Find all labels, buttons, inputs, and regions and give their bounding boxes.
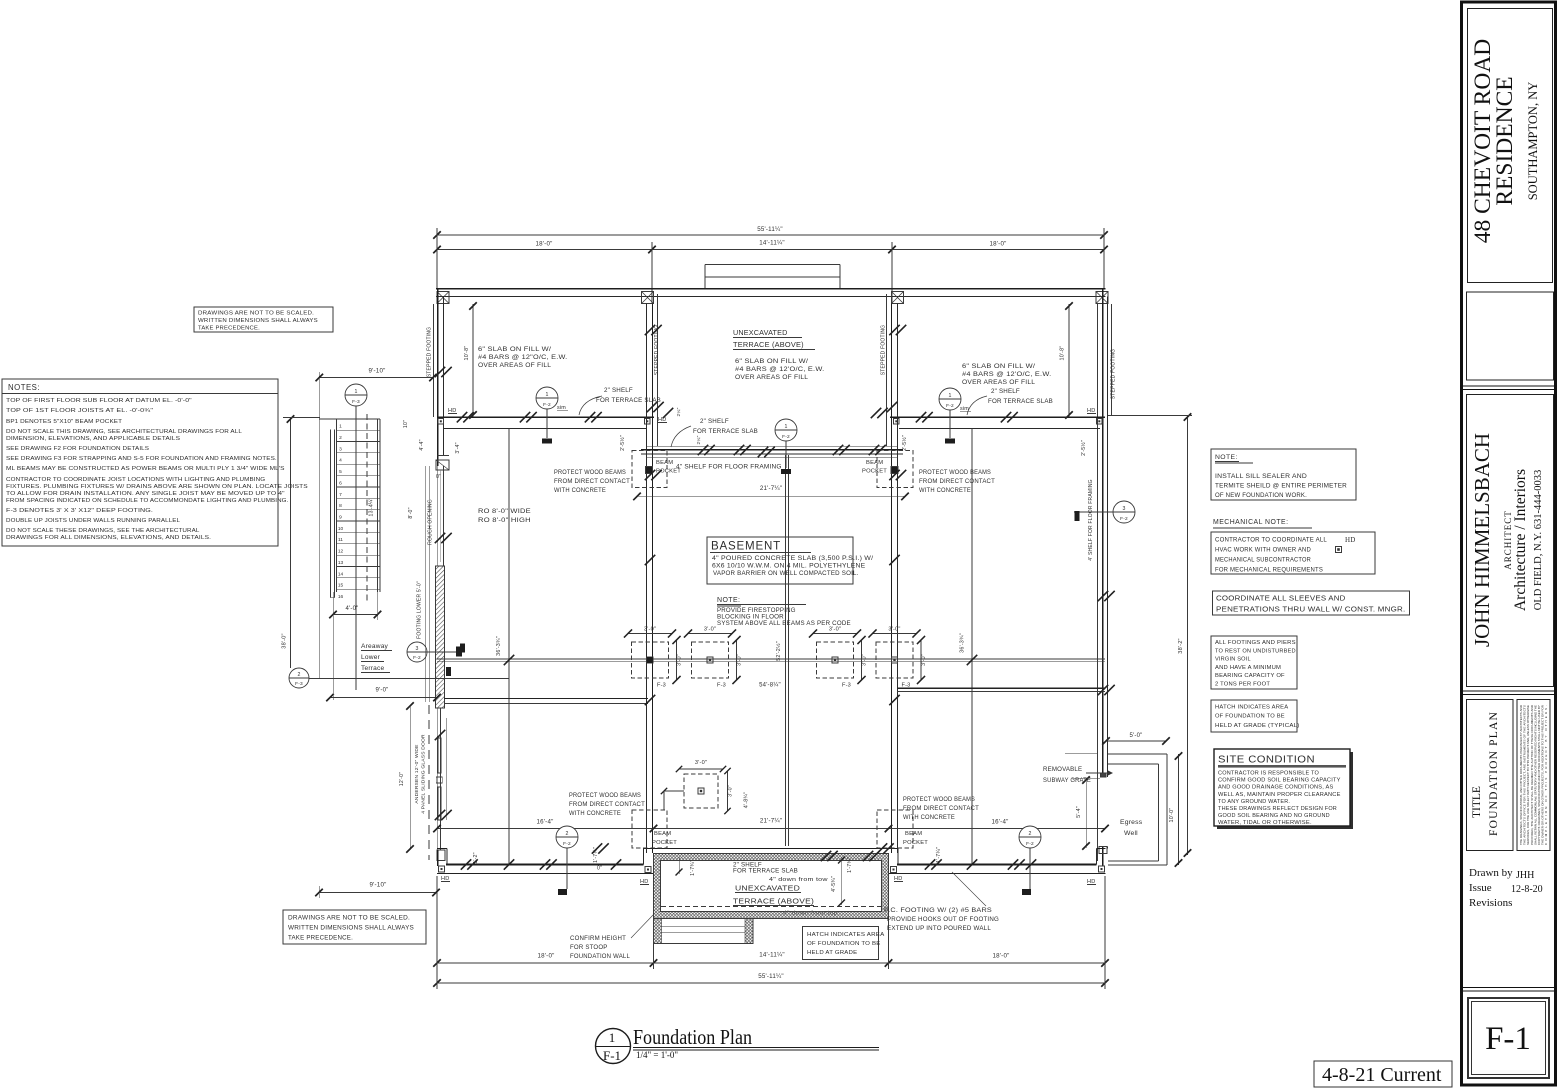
svg-text:2: 2 bbox=[339, 435, 342, 441]
corner post left-center bbox=[642, 292, 654, 304]
svg-text:1'-7¾": 1'-7¾" bbox=[690, 860, 696, 876]
svg-text:F-2: F-2 bbox=[563, 841, 571, 847]
svg-text:13: 13 bbox=[338, 560, 344, 566]
left wall rough opening jambs bbox=[437, 466, 439, 566]
svg-text:CONTRACTOR IS RESPONSIBLE TO: CONTRACTOR IS RESPONSIBLE TO bbox=[1218, 771, 1320, 777]
svg-text:HD: HD bbox=[1087, 879, 1095, 885]
svg-text:SYSTEM ABOVE ALL BEAMS AS PER: SYSTEM ABOVE ALL BEAMS AS PER CODE bbox=[717, 621, 851, 627]
svg-text:FROM DIRECT CONTACT: FROM DIRECT CONTACT bbox=[569, 801, 645, 808]
svg-text:FOR TERRACE SLAB: FOR TERRACE SLAB bbox=[693, 428, 758, 435]
beam pocket bottom-left dashed bbox=[632, 810, 667, 848]
drawings not to be scaled box top bbox=[194, 307, 333, 332]
beam pocket top-right dashed bbox=[877, 451, 913, 488]
dim 9'-10 above stair bbox=[319, 377, 433, 379]
drawn by issue revisions bbox=[1469, 867, 1543, 909]
svg-text:3'-0": 3'-0" bbox=[704, 627, 716, 633]
svg-text:AND GOOD DRAINAGE CONDITIONS,: AND GOOD DRAINAGE CONDITIONS, AS bbox=[1218, 785, 1334, 791]
svg-text:4 PANEL SLIDING GLASS DOOR: 4 PANEL SLIDING GLASS DOOR bbox=[421, 734, 427, 814]
svg-text:Revisions: Revisions bbox=[1469, 897, 1512, 909]
egress well inner bbox=[1108, 763, 1158, 765]
svg-text:F-2: F-2 bbox=[946, 403, 954, 409]
svg-text:JHH: JHH bbox=[1516, 870, 1534, 881]
svg-text:5'-0": 5'-0" bbox=[1130, 733, 1143, 739]
svg-text:WITH CONCRETE: WITH CONCRETE bbox=[569, 810, 621, 817]
svg-text:BP1 DENOTES 5"X10" BEAM POCKET: BP1 DENOTES 5"X10" BEAM POCKET bbox=[6, 419, 122, 425]
dim 3'-0 right of lower footing bbox=[727, 771, 729, 811]
svg-text:FOOTING LOWER 5'-0": FOOTING LOWER 5'-0" bbox=[417, 581, 423, 639]
svg-text:OVER AREAS OF FILL: OVER AREAS OF FILL bbox=[962, 379, 1036, 386]
svg-text:2¼": 2¼" bbox=[676, 407, 682, 416]
svg-text:FROM SPACING INDICATED ON SCHE: FROM SPACING INDICATED ON SCHEDULE TO AC… bbox=[6, 498, 289, 504]
svg-text:HD: HD bbox=[1345, 536, 1356, 544]
svg-text:FOR MECHANICAL REQUIREMENTS: FOR MECHANICAL REQUIREMENTS bbox=[1215, 567, 1323, 574]
dim 3'-0 above footing x=894.5 bbox=[873, 633, 917, 635]
svg-text:PROTECT WOOD BEAMS: PROTECT WOOD BEAMS bbox=[903, 796, 975, 803]
svg-text:COORDINATE ALL SLEEVES AND: COORDINATE ALL SLEEVES AND bbox=[1216, 594, 1346, 603]
section separator 2 bbox=[1462, 690, 1557, 692]
svg-text:2" SHELF: 2" SHELF bbox=[700, 418, 729, 425]
svg-text:UNEXCAVATED: UNEXCAVATED bbox=[735, 884, 800, 893]
svg-text:ALL FOOTINGS AND PIERS: ALL FOOTINGS AND PIERS bbox=[1215, 640, 1296, 646]
site condition box bbox=[1217, 752, 1353, 829]
svg-text:5'-4": 5'-4" bbox=[1076, 806, 1082, 818]
svg-text:TITLE: TITLE bbox=[1471, 786, 1483, 818]
svg-text:3'-0": 3'-0" bbox=[677, 654, 683, 666]
svg-text:0": 0" bbox=[436, 474, 441, 480]
svg-text:F-1: F-1 bbox=[603, 1048, 621, 1063]
svg-text:2: 2 bbox=[1028, 831, 1031, 837]
svg-text:F-3 DENOTES 3' X 3' X12" DEEP: F-3 DENOTES 3' X 3' X12" DEEP FOOTING. bbox=[6, 508, 153, 514]
right wing interior wall bbox=[890, 416, 1105, 418]
svg-text:F-2: F-2 bbox=[1120, 516, 1128, 522]
svg-text:BEAM: BEAM bbox=[905, 831, 922, 837]
dim 3'-0 above lower footing bbox=[679, 768, 723, 770]
title block outer border bbox=[1462, 2, 1556, 1085]
svg-text:6X6 10/10 W.W.M. ON 4 MIL. POL: 6X6 10/10 W.W.M. ON 4 MIL. POLYETHYLENE bbox=[712, 564, 865, 570]
svg-text:HELD AT GRADE (TYPICAL): HELD AT GRADE (TYPICAL) bbox=[1215, 723, 1300, 729]
center terrace right wall bbox=[891, 304, 893, 854]
svg-text:THESE DRAWINGS REFLECT DESIGN: THESE DRAWINGS REFLECT DESIGN FOR bbox=[1218, 806, 1337, 812]
svg-text:16'-4": 16'-4" bbox=[537, 819, 554, 826]
svg-text:4" SHELF FOR FLOOR FRAMING: 4" SHELF FOR FLOOR FRAMING bbox=[676, 464, 782, 471]
svg-text:CONTRACTOR TO COORDINATE ALL: CONTRACTOR TO COORDINATE ALL bbox=[1215, 537, 1327, 544]
svg-text:F-2: F-2 bbox=[413, 655, 421, 661]
svg-text:F-2: F-2 bbox=[543, 402, 551, 408]
svg-text:55'-11¼": 55'-11¼" bbox=[757, 226, 783, 233]
svg-text:F-3: F-3 bbox=[902, 683, 911, 689]
svg-text:#4 BARS @ 12'O/C, E.W.: #4 BARS @ 12'O/C, E.W. bbox=[735, 366, 824, 373]
svg-text:BEARING CAPACITY OF: BEARING CAPACITY OF bbox=[1215, 673, 1285, 679]
svg-text:GOOD SOIL BEARING AND NO GROUN: GOOD SOIL BEARING AND NO GROUND bbox=[1218, 813, 1330, 819]
svg-text:CONFIRM HEIGHT: CONFIRM HEIGHT bbox=[570, 935, 626, 942]
svg-text:3'-0": 3'-0" bbox=[737, 654, 743, 666]
svg-text:6: 6 bbox=[339, 480, 342, 486]
svg-text:TAKE PRECEDENCE.: TAKE PRECEDENCE. bbox=[198, 326, 260, 332]
svg-text:9: 9 bbox=[339, 515, 342, 521]
svg-text:3'-0": 3'-0" bbox=[862, 654, 868, 666]
svg-text:54'-8¼": 54'-8¼" bbox=[759, 683, 781, 689]
dim 3'-0 above footing x=835 bbox=[813, 633, 857, 635]
areaway lines bbox=[309, 678, 509, 680]
subway grate opening in right wall bbox=[1101, 773, 1107, 777]
svg-text:14: 14 bbox=[338, 571, 344, 577]
stair outer box bbox=[319, 418, 380, 420]
svg-text:ROUGH OPENING: ROUGH OPENING bbox=[428, 499, 434, 545]
svg-text:3'-0": 3'-0" bbox=[921, 654, 927, 666]
svg-text:3'-4": 3'-4" bbox=[455, 442, 461, 453]
svg-text:NOTE:: NOTE: bbox=[1215, 454, 1238, 461]
svg-text:4" down from top: 4" down from top bbox=[783, 911, 838, 917]
svg-text:STEPPED FOOTING: STEPPED FOOTING bbox=[427, 327, 433, 378]
dim 3'-0 right of footing x=650 bbox=[676, 640, 678, 680]
svg-text:TO REST ON UNDISTURBED: TO REST ON UNDISTURBED bbox=[1215, 648, 1296, 654]
svg-text:FROM DIRECT CONTACT: FROM DIRECT CONTACT bbox=[554, 478, 630, 485]
svg-text:OF NEW FOUNDATION WORK.: OF NEW FOUNDATION WORK. bbox=[1215, 492, 1307, 499]
svg-text:Foundation Plan: Foundation Plan bbox=[633, 1025, 752, 1049]
svg-text:F-3: F-3 bbox=[657, 683, 666, 689]
svg-text:11: 11 bbox=[338, 537, 343, 543]
stair leader line from circle bbox=[355, 406, 357, 690]
svg-text:CONTRACTOR TO COORDINATE JOIST: CONTRACTOR TO COORDINATE JOIST LOCATIONS… bbox=[6, 477, 266, 483]
right wing lower interior wall bbox=[897, 687, 1105, 689]
svg-text:4'-4": 4'-4" bbox=[419, 439, 425, 450]
center terrace inner shelf lines bbox=[657, 294, 659, 447]
svg-text:13'-4¼": 13'-4¼" bbox=[369, 498, 375, 517]
svg-text:REMOVABLE: REMOVABLE bbox=[1043, 766, 1082, 773]
svg-text:2'-5½": 2'-5½" bbox=[619, 435, 626, 451]
left wall sliding door frame bbox=[436, 708, 438, 850]
svg-text:DRAWINGS FOR ALL DIMENSIONS, E: DRAWINGS FOR ALL DIMENSIONS, ELEVATIONS,… bbox=[6, 535, 211, 541]
dim 3'-0 right of footing x=835 bbox=[861, 640, 863, 680]
svg-text:3: 3 bbox=[339, 446, 342, 452]
svg-text:1: 1 bbox=[354, 389, 357, 395]
svg-text:10'-0": 10'-0" bbox=[1169, 808, 1175, 823]
svg-text:WRITTEN DIMENSIONS SHALL ALWAY: WRITTEN DIMENSIONS SHALL ALWAYS bbox=[198, 318, 318, 324]
legal fine print box bbox=[1517, 700, 1550, 851]
svg-text:14'-11¼": 14'-11¼" bbox=[759, 240, 785, 247]
svg-text:HELD AT GRADE: HELD AT GRADE bbox=[807, 950, 857, 956]
svg-text:SEE DRAWING F3 FOR STRAPPING A: SEE DRAWING F3 FOR STRAPPING AND S-5 FOR… bbox=[6, 456, 277, 462]
svg-text:EXTEND UP INTO POURED WALL: EXTEND UP INTO POURED WALL bbox=[887, 925, 991, 932]
svg-text:AND HAVE A MINIMUM: AND HAVE A MINIMUM bbox=[1215, 665, 1281, 671]
svg-text:1: 1 bbox=[784, 424, 787, 430]
svg-text:F-3: F-3 bbox=[717, 683, 726, 689]
svg-text:9'-10": 9'-10" bbox=[369, 368, 386, 375]
right wing vertical dim 10'-8 bbox=[1068, 304, 1070, 417]
svg-text:6" SLAB ON FILL W/: 6" SLAB ON FILL W/ bbox=[478, 346, 551, 353]
dimension line 55'-11 1/4 top bbox=[437, 234, 1104, 236]
svg-text:TO ALLOW FOR DRAIN INSTALLATIO: TO ALLOW FOR DRAIN INSTALLATION. ANY SIN… bbox=[6, 491, 285, 497]
coordinate sleeves box bbox=[1213, 591, 1410, 615]
BASEMENT note box bbox=[707, 537, 853, 584]
current date box bbox=[1314, 1061, 1452, 1087]
dimension extension lines top bbox=[436, 228, 438, 289]
circle 1/F-2 center bbox=[775, 419, 797, 441]
dim line 16-4 / 21-7 / 16-4 above bottom wall bbox=[437, 828, 1105, 830]
stair treads bbox=[337, 429, 381, 431]
egress well dim 5'-0 bbox=[1106, 740, 1166, 742]
bottom exterior wall left run bbox=[437, 848, 447, 850]
svg-text:PENETRATIONS THRU WALL W/ CONS: PENETRATIONS THRU WALL W/ CONST. MNGR. bbox=[1216, 605, 1405, 614]
svg-text:HD: HD bbox=[1087, 408, 1095, 414]
circle 1/F-2 left wing bbox=[536, 387, 558, 409]
svg-text:HATCH INDICATES AREA: HATCH INDICATES AREA bbox=[807, 932, 884, 938]
svg-text:4'-8¾": 4'-8¾" bbox=[744, 792, 750, 808]
footing F-3 at x=835 bbox=[817, 642, 854, 678]
svg-text:Well: Well bbox=[1124, 830, 1138, 837]
svg-text:F-3: F-3 bbox=[295, 681, 303, 687]
wall tick marks bbox=[457, 412, 467, 422]
svg-text:RO 8'-0" WIDE: RO 8'-0" WIDE bbox=[478, 508, 531, 515]
svg-text:OLD FIELD, N.Y. 631-444-0033: OLD FIELD, N.Y. 631-444-0033 bbox=[1533, 470, 1544, 610]
svg-text:TOP OF FIRST FLOOR SUB FLOOR A: TOP OF FIRST FLOOR SUB FLOOR AT DATUM EL… bbox=[6, 398, 192, 404]
svg-text:1: 1 bbox=[545, 392, 548, 398]
bottom dim line 18-0 / 14-11 / 18-0 bbox=[437, 962, 1105, 964]
left wing lower interior wall bbox=[444, 698, 648, 700]
svg-text:15: 15 bbox=[338, 583, 344, 589]
svg-text:SITE CONDITION: SITE CONDITION bbox=[1218, 754, 1315, 766]
left wall bottom corner step bbox=[437, 850, 445, 861]
svg-text:WITH CONCRETE: WITH CONCRETE bbox=[903, 814, 955, 821]
svg-text:2'-5½": 2'-5½" bbox=[1080, 440, 1087, 456]
leader to lower footing bbox=[664, 790, 684, 792]
svg-text:NOTES:: NOTES: bbox=[8, 383, 40, 392]
corner post top-right bbox=[1096, 292, 1108, 304]
stoop interior dim lines bbox=[678, 857, 680, 874]
title box foundation plan bbox=[1467, 700, 1514, 851]
svg-text:1/4" = 1'-0": 1/4" = 1'-0" bbox=[636, 1050, 678, 1060]
mechanical note box bbox=[1211, 532, 1375, 574]
svg-text:36'-3¾": 36'-3¾" bbox=[960, 633, 966, 653]
svg-text:INSTALL SILL SEALER AND: INSTALL SILL SEALER AND bbox=[1215, 473, 1307, 480]
interior beam line center vertical bbox=[785, 455, 787, 846]
dim 9'-10 bottom left bbox=[319, 892, 436, 894]
architect box bbox=[1467, 395, 1554, 687]
svg-text:FROM DIRECT CONTACT: FROM DIRECT CONTACT bbox=[903, 805, 979, 812]
svg-text:F-3: F-3 bbox=[352, 399, 360, 405]
svg-text:4" POURED CONCRETE SLAB (3,500: 4" POURED CONCRETE SLAB (3,500 P.S.I.) W… bbox=[712, 556, 873, 562]
svg-text:STEPPED FOOTING: STEPPED FOOTING bbox=[881, 325, 887, 376]
bottom wall inner line bbox=[437, 873, 654, 875]
svg-text:ANDERSEN 12'-0" WIDE: ANDERSEN 12'-0" WIDE bbox=[414, 744, 420, 804]
dim 4'-0 under stair bbox=[333, 614, 378, 616]
drawings not to be scaled box bottom bbox=[283, 910, 426, 944]
svg-text:36'-3¾": 36'-3¾" bbox=[496, 636, 502, 656]
svg-text:18'-0": 18'-0" bbox=[538, 953, 555, 960]
svg-text:BASEMENT: BASEMENT bbox=[711, 541, 781, 553]
svg-text:TO ANY GROUND WATER.: TO ANY GROUND WATER. bbox=[1218, 799, 1290, 805]
svg-text:DIMENSION, ELEVATIONS, AND APP: DIMENSION, ELEVATIONS, AND APPLICABLE DE… bbox=[6, 436, 180, 442]
svg-text:VIRGIN SOIL: VIRGIN SOIL bbox=[1215, 657, 1251, 663]
svg-text:PROTECT WOOD BEAMS: PROTECT WOOD BEAMS bbox=[554, 469, 626, 476]
svg-text:38'-0": 38'-0" bbox=[282, 633, 288, 648]
svg-text:Drawn by: Drawn by bbox=[1469, 867, 1513, 879]
left wall corner step bbox=[438, 455, 449, 457]
svg-text:3'-0": 3'-0" bbox=[695, 760, 707, 766]
svg-text:WATER, TIDAL OR OTHERWISE.: WATER, TIDAL OR OTHERWISE. bbox=[1218, 820, 1312, 826]
section separator bbox=[1462, 385, 1557, 387]
circle 2/F-3 bbox=[289, 668, 309, 688]
section separator 3 bbox=[1462, 987, 1557, 989]
svg-text:WITH CONCRETE: WITH CONCRETE bbox=[554, 487, 606, 494]
svg-text:FOR TERRACE SLAB: FOR TERRACE SLAB bbox=[596, 397, 661, 404]
sheet number box F-1 bbox=[1468, 998, 1549, 1078]
corner post right-center bbox=[892, 292, 904, 304]
svg-text:Lower: Lower bbox=[361, 654, 381, 661]
svg-text:16: 16 bbox=[338, 594, 344, 600]
egress well outer bbox=[1108, 753, 1167, 755]
stair left rail bbox=[330, 430, 332, 598]
svg-text:4: 4 bbox=[339, 458, 342, 464]
stepped footing outline left bbox=[433, 304, 435, 417]
bottom wall line behind stoop bbox=[644, 848, 899, 850]
svg-text:2: 2 bbox=[565, 831, 568, 837]
svg-text:21'-7¼": 21'-7¼" bbox=[760, 485, 782, 492]
interior beam line right wing vertical bbox=[971, 428, 973, 864]
svg-text:16'-4": 16'-4" bbox=[992, 819, 1009, 826]
circle 1/F-3 bbox=[345, 384, 367, 406]
right exterior wall bbox=[1102, 289, 1104, 777]
door dim line 12'-0 bbox=[409, 705, 411, 850]
svg-text:POCKET: POCKET bbox=[862, 469, 887, 475]
svg-text:TERRACE (ABOVE): TERRACE (ABOVE) bbox=[733, 340, 804, 349]
sill sealer note box bbox=[1211, 449, 1356, 500]
svg-text:WRITTEN DIMENSIONS SHALL ALWAY: WRITTEN DIMENSIONS SHALL ALWAYS bbox=[288, 925, 414, 932]
svg-text:FOR TERRACE SLAB: FOR TERRACE SLAB bbox=[733, 867, 798, 874]
dim 3'-0 above footing x=710 bbox=[688, 633, 732, 635]
svg-text:12'-0": 12'-0" bbox=[399, 772, 405, 786]
svg-text:HD: HD bbox=[441, 876, 449, 882]
svg-text:0": 0" bbox=[597, 866, 602, 872]
svg-text:DO NOT SCALE THESE DRAWINGS, S: DO NOT SCALE THESE DRAWINGS, SEE THE ARC… bbox=[6, 528, 200, 534]
bottom dimension extension lines bbox=[436, 876, 438, 989]
F-3 beam line horizontal bbox=[437, 658, 1105, 660]
svg-text:38'-2": 38'-2" bbox=[1178, 638, 1184, 653]
svg-text:POCKET: POCKET bbox=[903, 840, 928, 846]
empty revision box bbox=[1467, 292, 1554, 380]
circle 2/F-2 bottom-right bbox=[1019, 826, 1041, 848]
svg-text:ML BEAMS MAY BE CONSTRUCTED AS: ML BEAMS MAY BE CONSTRUCTED AS POWER BEA… bbox=[6, 466, 285, 472]
stair dashed center line bbox=[366, 414, 368, 601]
dim 3'-0 right of footing x=710 bbox=[736, 640, 738, 680]
rough opening frame lines bbox=[425, 466, 427, 702]
svg-text:4'-0": 4'-0" bbox=[346, 606, 359, 612]
svg-text:JOHN HIMMELSBACH: JOHN HIMMELSBACH bbox=[1470, 433, 1494, 647]
svg-text:UNEXCAVATED: UNEXCAVATED bbox=[733, 328, 788, 337]
footings bearing box bbox=[1211, 636, 1297, 689]
svg-text:4-8-21 Current: 4-8-21 Current bbox=[1322, 1064, 1442, 1086]
svg-text:8'-0": 8'-0" bbox=[408, 507, 414, 518]
svg-text:RESIDENCE: RESIDENCE bbox=[1492, 76, 1518, 205]
svg-text:12-8-20: 12-8-20 bbox=[1511, 884, 1543, 895]
svg-text:Egress: Egress bbox=[1120, 819, 1143, 826]
beam pocket top-left dashed bbox=[632, 451, 667, 488]
svg-text:PROTECT WOOD BEAMS: PROTECT WOOD BEAMS bbox=[569, 792, 641, 799]
svg-text:3'-0": 3'-0" bbox=[829, 627, 841, 633]
svg-text:FOUNDATION WALL: FOUNDATION WALL bbox=[570, 953, 630, 960]
svg-text:DO NOT SCALE THIS DRAWING, SEE: DO NOT SCALE THIS DRAWING, SEE ARCHITECT… bbox=[6, 429, 243, 435]
svg-text:F-2: F-2 bbox=[1026, 841, 1034, 847]
svg-text:5: 5 bbox=[339, 469, 342, 475]
bottom exterior wall right run bbox=[897, 849, 899, 865]
svg-text:3: 3 bbox=[1122, 506, 1125, 512]
NOTES box bbox=[2, 379, 278, 546]
door center dashed line bbox=[428, 705, 430, 860]
black beam markers left bbox=[460, 644, 465, 653]
svg-text:10": 10" bbox=[403, 420, 409, 428]
svg-text:Issue: Issue bbox=[1469, 882, 1492, 894]
right vertical dim 38'-2 bbox=[1187, 415, 1189, 855]
svg-text:DRAWINGS ARE NOT TO BE SCALED.: DRAWINGS ARE NOT TO BE SCALED. bbox=[198, 311, 314, 317]
dim 3'-0 right of footing x=894.5 bbox=[920, 640, 922, 680]
left wall hatched footing strip bbox=[436, 566, 445, 708]
svg-text:HD: HD bbox=[640, 879, 648, 885]
svg-text:7: 7 bbox=[339, 492, 342, 498]
bottom dim line 55-11 bbox=[437, 982, 1105, 984]
svg-text:SOUTHAMPTON, NY: SOUTHAMPTON, NY bbox=[1526, 82, 1540, 201]
corner post top-left bbox=[437, 292, 449, 304]
circle 2/F-2 bottom-left bbox=[556, 826, 578, 848]
svg-text:BEAM: BEAM bbox=[866, 460, 883, 466]
svg-text:CONFIRM GOOD SOIL BEARING CAPA: CONFIRM GOOD SOIL BEARING CAPACITY bbox=[1218, 778, 1341, 784]
svg-text:9'-10": 9'-10" bbox=[370, 882, 387, 889]
circle 3/F-2 left bbox=[407, 642, 427, 662]
svg-text:PROTECT WOOD BEAMS: PROTECT WOOD BEAMS bbox=[919, 469, 991, 476]
svg-text:1: 1 bbox=[948, 393, 951, 399]
hatch indicates box right bbox=[1211, 700, 1297, 732]
svg-text:OF FOUNDATION TO BE: OF FOUNDATION TO BE bbox=[1215, 714, 1285, 720]
footing F-3 at x=710 bbox=[692, 642, 729, 678]
bottom wall end boxes bbox=[439, 866, 445, 872]
svg-text:F-1: F-1 bbox=[1485, 1021, 1531, 1057]
svg-text:9'-0": 9'-0" bbox=[376, 688, 389, 694]
svg-text:2 TONS PER FOOT: 2 TONS PER FOOT bbox=[1215, 682, 1270, 688]
svg-text:STEPPED FOOTING: STEPPED FOOTING bbox=[1111, 349, 1117, 400]
svg-text:#4 BARS @ 12'O/C, E.W.: #4 BARS @ 12'O/C, E.W. bbox=[962, 371, 1051, 378]
svg-text:1'-7¾": 1'-7¾" bbox=[847, 857, 853, 873]
svg-text:TAKE PRECEDENCE.: TAKE PRECEDENCE. bbox=[288, 935, 353, 942]
stoop hatched wall band bbox=[654, 854, 889, 919]
single footing F-3 lower center bbox=[684, 774, 718, 808]
svg-text:21'-7¼": 21'-7¼" bbox=[760, 818, 782, 825]
svg-text:Architecture / Interiors: Architecture / Interiors bbox=[1512, 469, 1529, 611]
left exterior wall upper bbox=[437, 289, 439, 466]
dimension line 18-0 / 14-11 / 18-0 top bbox=[437, 249, 1104, 251]
svg-text:4" down from tow: 4" down from tow bbox=[769, 877, 829, 883]
svg-text:#4 BARS @ 12"O/C, E.W.: #4 BARS @ 12"O/C, E.W. bbox=[478, 354, 567, 361]
left wing vertical dim 10'-8 bbox=[472, 304, 474, 417]
svg-text:P.C. FOOTING W/ (2) #5 BARS: P.C. FOOTING W/ (2) #5 BARS bbox=[884, 907, 992, 914]
svg-text:14'-11¼": 14'-11¼" bbox=[759, 952, 785, 959]
svg-text:HD: HD bbox=[894, 876, 902, 882]
svg-text:TERMITE SHEILD @ ENTIRE PERIME: TERMITE SHEILD @ ENTIRE PERIMETER bbox=[1215, 483, 1347, 490]
drawing title circle 1/F-1 bbox=[596, 1029, 631, 1064]
svg-text:DRAWINGS ARE NOT TO BE SCALED.: DRAWINGS ARE NOT TO BE SCALED. bbox=[288, 915, 410, 922]
svg-text:10'-8": 10'-8" bbox=[1060, 346, 1066, 361]
chimney projection at top wall bbox=[705, 264, 840, 266]
svg-text:10: 10 bbox=[338, 526, 344, 532]
svg-text:10'-8": 10'-8" bbox=[464, 346, 470, 361]
svg-text:4'-5¾": 4'-5¾" bbox=[831, 876, 837, 892]
svg-text:TOP OF 1ST FLOOR JOISTS AT EL.: TOP OF 1ST FLOOR JOISTS AT EL. -0'-0¾" bbox=[6, 408, 153, 414]
stepped footing outline right bbox=[1111, 304, 1113, 415]
svg-text:FOR STOOP: FOR STOOP bbox=[570, 944, 608, 951]
svg-text:F-2: F-2 bbox=[782, 434, 790, 440]
svg-text:DOUBLE UP JOISTS UNDER WALLS R: DOUBLE UP JOISTS UNDER WALLS RUNNING PAR… bbox=[6, 518, 181, 524]
svg-text:12: 12 bbox=[338, 549, 344, 555]
svg-text:FROM DIRECT CONTACT: FROM DIRECT CONTACT bbox=[919, 478, 995, 485]
svg-text:BLOCKING IN FLOOR: BLOCKING IN FLOOR bbox=[717, 615, 784, 621]
